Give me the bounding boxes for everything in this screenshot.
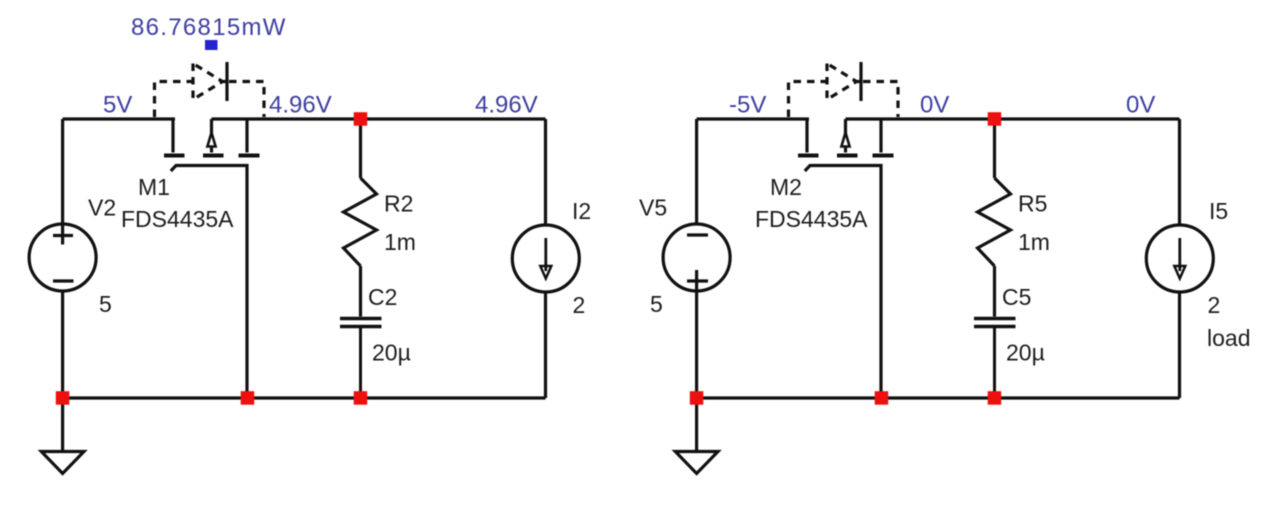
node junction (top, R2) [354,112,368,126]
svg-text:V5: V5 [639,195,667,221]
transistor M1 [164,119,260,156]
resistor R5 [978,119,1011,317]
svg-text:load: load [1207,325,1250,351]
node junction (bottom, gate M2) [875,391,889,405]
svg-text:0V: 0V [920,92,949,119]
node junction (bottom, V2) [56,391,70,405]
svg-text:20µ: 20µ [1006,340,1045,366]
transistor M2 [798,119,894,156]
svg-text:2: 2 [573,292,586,318]
svg-text:I5: I5 [1209,198,1228,224]
wire top left (V5 to M2 source) [697,117,809,120]
resistor R2 [344,119,377,317]
svg-text:5V: 5V [103,92,132,119]
svg-text:R5: R5 [1018,191,1047,217]
wire M2 gate to bottom rail [805,166,881,399]
svg-text:C5: C5 [1002,284,1031,310]
svg-text:M2: M2 [770,174,802,200]
svg-text:R2: R2 [384,191,413,217]
svg-text:4.96V: 4.96V [269,92,332,119]
node junction (bottom, gate M1) [241,391,255,405]
capacitor C2 [340,319,382,399]
wire top left (V2 to M1 source) [63,117,175,120]
ground (right circuit) [675,398,718,474]
wire top right (M2 drain to I5) [846,117,1180,120]
svg-text:1m: 1m [1018,229,1050,255]
svg-text:FDS4435A: FDS4435A [755,206,868,232]
svg-text:4.96V: 4.96V [475,92,538,119]
voltage source V5 [663,119,730,398]
svg-text:86.76815mW: 86.76815mW [131,14,287,41]
body diode of M2 (dashed) [789,62,899,117]
svg-text:20µ: 20µ [372,340,411,366]
bottom rail (right circuit) [697,396,1180,399]
node junction (top, R5) [988,112,1002,126]
current source I5 [1146,119,1213,398]
svg-text:0V: 0V [1126,92,1155,119]
svg-text:C2: C2 [368,284,397,310]
capacitor C5 [974,319,1016,399]
svg-text:1m: 1m [384,229,416,255]
node junction (bottom, C2) [354,391,368,405]
ground (left circuit) [41,398,84,474]
svg-text:-5V: -5V [729,92,766,119]
svg-text:5: 5 [650,291,663,317]
svg-text:M1: M1 [138,174,170,200]
body diode of M1 (dashed) [155,62,265,117]
wire M1 gate to bottom rail [171,166,247,399]
node junction (bottom, C5) [988,391,1002,405]
svg-text:FDS4435A: FDS4435A [121,206,234,232]
svg-text:5: 5 [99,291,112,317]
svg-text:2: 2 [1208,292,1221,318]
current source I2 [512,119,579,398]
bottom rail (left circuit) [63,396,546,399]
annotation marker square [205,40,218,50]
svg-text:I2: I2 [572,198,591,224]
wire top right (M1 drain to I2) [212,117,546,120]
node junction (bottom, V5) [690,391,704,405]
svg-text:V2: V2 [88,195,116,221]
voltage source V2 [29,119,96,398]
